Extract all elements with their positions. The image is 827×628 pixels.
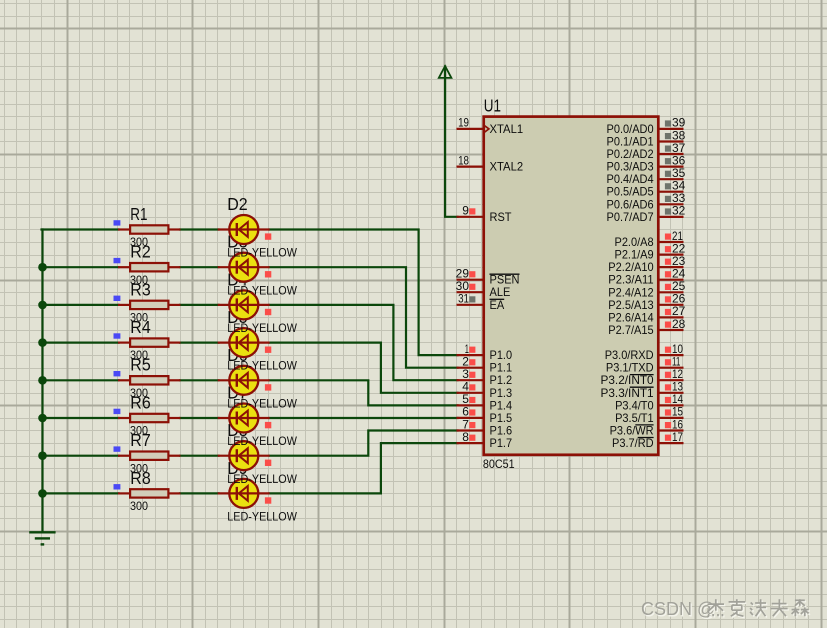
pin 4 state square (469, 384, 475, 390)
pin 24 state square (665, 271, 671, 277)
svg-text:P3.7/RD: P3.7/RD (612, 437, 654, 450)
pin 26 P2.5/A13 stub (658, 304, 683, 306)
pin 33 P0.6/AD6 stub (658, 203, 683, 205)
pin 3 P1.2 stub (457, 379, 484, 381)
wire LED2 to P1.1 pin (270, 267, 458, 368)
wire bus to resistor R1 (42, 228, 119, 230)
pin 29 PSEN stub (457, 279, 484, 281)
wire LED5 to P1.4 pin (270, 380, 458, 405)
svg-text:P1.2: P1.2 (490, 374, 513, 387)
pin 14 P3.4/T0 stub (658, 404, 683, 406)
marker red square LED D5 (265, 347, 271, 353)
svg-text:R2: R2 (130, 242, 150, 262)
svg-text:17: 17 (672, 430, 683, 444)
pin 36 state square (665, 158, 671, 164)
svg-text:P1.3: P1.3 (490, 387, 513, 400)
pin 23 state square (665, 259, 671, 265)
wire bus to resistor R5 (42, 379, 119, 381)
svg-text:R5: R5 (130, 355, 150, 375)
resistor R8 (118, 489, 180, 497)
svg-text:P3.0/RXD: P3.0/RXD (605, 349, 654, 362)
pin 11 state square (665, 359, 671, 365)
wire LED4 to P1.3 pin (270, 343, 458, 393)
svg-text:RST: RST (490, 211, 512, 224)
pin 27 state square (665, 309, 671, 315)
pin 9 state square (469, 208, 475, 214)
svg-text:R8: R8 (130, 468, 150, 488)
svg-text:P3.4/T0: P3.4/T0 (615, 399, 654, 412)
svg-text:9: 9 (462, 204, 469, 218)
overline RD (638, 437, 654, 439)
svg-text:P0.1/AD1: P0.1/AD1 (607, 136, 654, 149)
pin 37 state square (665, 146, 671, 152)
pin 25 state square (665, 284, 671, 290)
pin 2 state square (469, 359, 475, 365)
pin 4 P1.3 stub (457, 392, 484, 394)
pin 17 P3.7/RD stub (658, 442, 683, 444)
overline INT0 (630, 374, 654, 376)
svg-text:EA: EA (490, 299, 505, 312)
pin 24 P2.3/A11 stub (658, 279, 683, 281)
pin 31 state square (469, 296, 475, 302)
svg-text:LED-YELLOW: LED-YELLOW (227, 511, 297, 524)
pin 9 RST stub (457, 216, 484, 218)
pin 33 state square (665, 196, 671, 202)
junction node bus/R2 (38, 263, 47, 272)
svg-text:R4: R4 (130, 317, 151, 337)
pin 11 P3.1/TXD stub (658, 367, 683, 369)
marker red square LED D6 (265, 384, 271, 390)
wire R1 to LED (180, 228, 219, 230)
pin 3 state square (469, 372, 475, 378)
pin 13 P3.3/INT1 stub (658, 392, 683, 394)
resistor R3 (118, 301, 180, 309)
svg-text:R3: R3 (130, 279, 150, 299)
overline PSEN (490, 273, 520, 275)
clock input triangle XTAL1 (484, 125, 489, 132)
pin 38 P0.1/AD1 stub (658, 140, 683, 142)
svg-text:P2.6/A14: P2.6/A14 (608, 311, 654, 324)
junction node bus/R6 (38, 414, 47, 423)
svg-text:31: 31 (458, 292, 469, 306)
LED D3 (218, 253, 270, 282)
pin 6 P1.5 stub (457, 417, 484, 419)
marker red square LED D3 (265, 271, 271, 277)
pin 29 state square (469, 271, 475, 277)
marker blue square R3 (114, 296, 121, 301)
wire LED3 to P1.2 pin (270, 305, 458, 380)
junction node bus/R8 (38, 489, 47, 498)
junction node bus/R3 (38, 301, 47, 310)
wire R8 to LED (180, 492, 219, 494)
svg-text:18: 18 (458, 153, 469, 167)
pin 7 P1.6 stub (457, 429, 484, 431)
svg-text:P0.2/AD2: P0.2/AD2 (607, 148, 654, 161)
wire R5 to LED (180, 379, 219, 381)
LED D5 (218, 328, 270, 357)
pin 14 state square (665, 397, 671, 403)
pin 5 state square (469, 397, 475, 403)
svg-text:P0.5/AD5: P0.5/AD5 (607, 186, 654, 199)
marker blue square R6 (114, 409, 121, 414)
pin 5 P1.4 stub (457, 404, 484, 406)
resistor R4 (118, 338, 180, 346)
LED D7 (218, 404, 270, 433)
pin 38 state square (665, 133, 671, 139)
LED D4 (218, 290, 270, 319)
svg-text:P3.3/INT1: P3.3/INT1 (601, 387, 654, 400)
svg-text:P2.4/A12: P2.4/A12 (608, 286, 653, 299)
resistor R1 (118, 225, 180, 233)
marker blue square R5 (114, 371, 121, 376)
svg-text:P2.7/A15: P2.7/A15 (608, 324, 653, 337)
pin 21 state square (665, 234, 671, 240)
svg-text:P1.7: P1.7 (490, 437, 513, 450)
marker blue square R1 (114, 220, 121, 225)
pin 8 P1.7 stub (457, 442, 484, 444)
svg-text:XTAL1: XTAL1 (490, 123, 524, 136)
pin 10 P3.0/RXD stub (658, 354, 683, 356)
svg-text:LED-YELLOW: LED-YELLOW (227, 397, 297, 410)
junction node bus/R4 (38, 338, 47, 347)
wire LED7 to P1.6 pin (270, 431, 458, 456)
pin 28 P2.7/A15 stub (658, 329, 683, 331)
LED D9 (218, 479, 270, 508)
marker red square LED D7 (265, 422, 271, 428)
svg-text:P0.4/AD4: P0.4/AD4 (607, 173, 655, 186)
wire R3 to LED (180, 304, 219, 306)
LED D2 (218, 215, 270, 244)
pin 10 state square (665, 347, 671, 353)
resistor R6 (118, 414, 180, 422)
svg-text:R6: R6 (130, 392, 150, 412)
svg-text:LED-YELLOW: LED-YELLOW (227, 473, 297, 486)
marker blue square R8 (114, 484, 121, 489)
svg-text:P0.6/AD6: P0.6/AD6 (607, 198, 654, 211)
svg-text:LED-YELLOW: LED-YELLOW (227, 247, 297, 260)
marker blue square R2 (114, 258, 121, 263)
marker red square LED D8 (265, 460, 271, 466)
svg-text:XTAL2: XTAL2 (490, 161, 524, 174)
svg-text:LED-YELLOW: LED-YELLOW (227, 284, 297, 297)
svg-text:LED-YELLOW: LED-YELLOW (227, 360, 297, 373)
ground (29, 532, 55, 544)
svg-text:P1.0: P1.0 (490, 349, 513, 362)
pin 25 P2.4/A12 stub (658, 291, 683, 293)
pin 1 state square (469, 347, 475, 353)
svg-text:P3.2/INT0: P3.2/INT0 (601, 374, 654, 387)
wire vertical ground bus (41, 230, 43, 532)
wire R7 to LED (180, 455, 219, 457)
svg-text:19: 19 (458, 116, 469, 130)
svg-text:P3.5/T1: P3.5/T1 (615, 412, 654, 425)
resistor R7 (118, 452, 180, 460)
pin 1 P1.0 stub (457, 354, 484, 356)
pin 21 P2.0/A8 stub (658, 241, 683, 243)
wire R6 to LED (180, 417, 219, 419)
wire bus to resistor R2 (42, 266, 119, 268)
pin 12 P3.2/INT0 stub (658, 379, 683, 381)
pin 19 XTAL1 stub (457, 128, 484, 130)
svg-text:LED-YELLOW: LED-YELLOW (227, 435, 297, 448)
svg-text:D2: D2 (227, 194, 247, 214)
wire bus to resistor R4 (42, 342, 119, 344)
svg-text:P1.1: P1.1 (490, 362, 513, 375)
wire bus to resistor R6 (42, 417, 119, 419)
pin 30 state square (469, 284, 475, 290)
pin 7 state square (469, 422, 475, 428)
wire LED6 to P1.5 pin (270, 417, 458, 419)
pin 39 state square (665, 120, 671, 126)
marker blue square R7 (114, 446, 121, 451)
overline WR (635, 424, 653, 426)
pin 18 XTAL2 stub (457, 166, 484, 168)
LED D6 (218, 366, 270, 395)
pin 22 state square (665, 246, 671, 252)
resistor R2 (118, 263, 180, 271)
pin 32 P0.7/AD7 stub (658, 216, 683, 218)
svg-text:P0.3/AD3: P0.3/AD3 (607, 161, 654, 174)
svg-text:P3.1/TXD: P3.1/TXD (606, 362, 654, 375)
marker red square LED D9 (265, 497, 271, 503)
pin 30 ALE stub (457, 291, 484, 293)
wire bus to resistor R3 (42, 304, 119, 306)
pin 12 state square (665, 372, 671, 378)
svg-text:P3.6/WR: P3.6/WR (610, 425, 654, 438)
pin 6 state square (469, 409, 475, 415)
resistor R5 (118, 376, 180, 384)
junction node bus/R5 (38, 376, 47, 385)
svg-text:P1.5: P1.5 (490, 412, 513, 425)
marker blue square R4 (114, 333, 121, 338)
pin 23 P2.2/A10 stub (658, 266, 683, 268)
svg-text:P2.5/A13: P2.5/A13 (608, 299, 653, 312)
svg-text:U1: U1 (484, 96, 501, 116)
pin 35 P0.4/AD4 stub (658, 178, 683, 180)
pin 27 P2.6/A14 stub (658, 316, 683, 318)
pin 15 state square (665, 409, 671, 415)
pin 26 state square (665, 296, 671, 302)
pin 16 P3.6/WR stub (658, 429, 683, 431)
svg-text:P2.1/A9: P2.1/A9 (615, 249, 654, 262)
wire bus to resistor R8 (42, 492, 119, 494)
svg-text:P1.4: P1.4 (490, 399, 513, 412)
svg-text:P2.2/A10: P2.2/A10 (608, 261, 653, 274)
chip U1 body (80C51 MCU) (484, 117, 659, 455)
wire LED8 to P1.7 pin (270, 443, 458, 493)
overline EA (490, 298, 505, 300)
pin 8 state square (469, 435, 475, 441)
svg-text:8: 8 (462, 430, 469, 444)
pin 15 P3.5/T1 stub (658, 417, 683, 419)
wire R4 to LED (180, 342, 219, 344)
pin 22 P2.1/A9 stub (658, 254, 683, 256)
marker red square LED D4 (265, 309, 271, 315)
pin 37 P0.2/AD2 stub (658, 153, 683, 155)
wire R2 to LED (180, 266, 219, 268)
pin 2 P1.1 stub (457, 367, 484, 369)
svg-text:LED-YELLOW: LED-YELLOW (227, 322, 297, 335)
power symbol VCC arrow (439, 66, 452, 78)
svg-text:R1: R1 (130, 204, 147, 224)
pin 17 state square (665, 435, 671, 441)
overline INT1 (630, 386, 654, 388)
svg-text:P0.0/AD0: P0.0/AD0 (607, 123, 654, 136)
pin 32 state square (665, 208, 671, 214)
svg-text:R7: R7 (130, 430, 150, 450)
svg-text:P2.3/A11: P2.3/A11 (608, 274, 653, 287)
pin 34 P0.5/AD5 stub (658, 191, 683, 193)
wire LED1 to P1.0 pin (270, 230, 458, 356)
svg-text:P1.6: P1.6 (490, 425, 513, 438)
marker red square LED D2 (265, 233, 271, 239)
svg-text:300: 300 (130, 500, 148, 513)
svg-text:ALE: ALE (490, 286, 511, 299)
svg-text:PSEN: PSEN (490, 274, 520, 287)
svg-text:P2.0/A8: P2.0/A8 (615, 236, 654, 249)
svg-text:32: 32 (672, 204, 686, 218)
LED D8 (218, 441, 270, 470)
wire bus to resistor R7 (42, 455, 119, 457)
svg-text:28: 28 (672, 317, 686, 331)
pin 35 state square (665, 171, 671, 177)
pin 31 EA stub (457, 304, 484, 306)
pin 13 state square (665, 384, 671, 390)
wire power to RST (445, 67, 457, 217)
svg-text:CSDN @: CSDN @ (641, 599, 715, 619)
pin 34 state square (665, 183, 671, 189)
junction node bus/R7 (38, 451, 47, 460)
pin 39 P0.0/AD0 stub (658, 128, 683, 130)
svg-text:80C51: 80C51 (483, 458, 515, 471)
pin 28 state square (665, 322, 671, 328)
pin 16 state square (665, 422, 671, 428)
pin 36 P0.3/AD3 stub (658, 166, 683, 168)
svg-text:P0.7/AD7: P0.7/AD7 (607, 211, 654, 224)
